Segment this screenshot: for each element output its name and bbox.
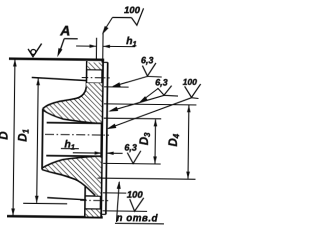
- hub left face: [41, 109, 44, 170]
- h1 mid right arrow: [107, 152, 123, 154]
- 6.3 #2 leader B (to D4 ext): [140, 88, 158, 102]
- svg-text:n отв.d: n отв.d: [116, 213, 158, 225]
- D4 dimension line: [187, 105, 190, 178]
- D3 bottom extension: [103, 162, 160, 165]
- view A arrow: [64, 38, 77, 40]
- D1 dimension line: [37, 79, 39, 203]
- hatched rim block bottom: [86, 210, 101, 217]
- 6.3 #2 tail: [164, 94, 178, 97]
- hatched rim block top: [87, 62, 102, 69]
- rim inner line bottom: [47, 198, 86, 200]
- lower bolt hole bottom edge: [85, 208, 101, 210]
- svg-text:100: 100: [124, 5, 141, 16]
- h1 mid label shelf: [61, 148, 79, 150]
- h1 top left extension: [95, 38, 97, 59]
- web lower wing hatched area: [42, 156, 101, 196]
- web lower wing upper edge: [42, 156, 95, 169]
- roughness 100 #3 check (on bottom ext): [130, 198, 144, 212]
- 100 #2 tail: [191, 97, 198, 100]
- svg-text:D: D: [0, 131, 11, 139]
- 6.3#1 extension line (hole): [104, 86, 128, 88]
- svg-text:D3: D3: [139, 132, 152, 145]
- 100 #2 leader (to V2 lower): [108, 97, 191, 130]
- n otv d leader: [116, 182, 119, 222]
- svg-text:D4: D4: [168, 133, 181, 146]
- svg-text:100: 100: [183, 77, 198, 87]
- svg-text:h1: h1: [126, 35, 137, 48]
- n otv d underline: [115, 222, 164, 225]
- web lower wing lower edge: [42, 170, 96, 196]
- rim inner line top (D1 extension): [32, 77, 88, 80]
- lower hole axis dash-dot: [80, 199, 108, 201]
- right face V1: [101, 60, 103, 218]
- bore bottom line: [46, 155, 101, 158]
- top surface line: [9, 59, 104, 60]
- D1 bottom extension line: [23, 202, 67, 205]
- upper bolt hole bottom edge: [87, 82, 103, 84]
- D4 top extension: [104, 104, 196, 105]
- svg-text:6,3: 6,3: [141, 55, 154, 65]
- roughness 100 #1 top: bar, check, leader: [112, 16, 131, 18]
- web upper wing hatched area: [43, 83, 102, 124]
- svg-text:A: A: [59, 22, 70, 38]
- roughness 6.3 #3 check (on D3 bottom ext): [127, 151, 141, 164]
- D3 top extension: [104, 117, 161, 120]
- D3 dimension line: [154, 119, 157, 163]
- flange ring top edge: [103, 61, 108, 63]
- svg-text:D1: D1: [17, 128, 30, 141]
- web upper wing lower edge: [43, 110, 96, 123]
- svg-text:h1: h1: [64, 138, 75, 151]
- 100#3 extension line (bottom): [103, 210, 147, 213]
- svg-text:6,3: 6,3: [124, 143, 137, 153]
- 6.3 #2 leader C (to V2): [110, 95, 164, 112]
- roughness 6.3 #2 check: [158, 85, 172, 95]
- roughness symbol on top surface (check with circle): [28, 43, 42, 56]
- svg-text:100: 100: [127, 190, 144, 201]
- upper hole axis dash-dot: [82, 77, 110, 79]
- bore top line: [47, 122, 102, 125]
- 6.3 #1 tail: [147, 75, 161, 78]
- D dimension line: [13, 60, 15, 216]
- roughness 6.3 #1 check: [142, 63, 156, 76]
- flange left face upper: [85, 61, 87, 87]
- D4 bottom extension: [97, 178, 195, 179]
- bore axis dash-dot: [45, 133, 109, 136]
- flange left face lower: [84, 187, 86, 216]
- lower bolt hole top edge: [85, 195, 101, 197]
- h1 top dimension arrows: [76, 45, 96, 47]
- flange ring V2: [106, 62, 108, 214]
- h1 mid left arrow: [73, 152, 101, 154]
- bottom surface line: [7, 216, 103, 217]
- upper bolt hole top edge: [87, 69, 103, 71]
- 6.3 #1 leader: [113, 76, 147, 87]
- svg-text:6,3: 6,3: [155, 77, 168, 87]
- h1 top right extension: [102, 32, 104, 59]
- roughness 100 #2 check: [184, 84, 200, 98]
- bottom hole extension line: [103, 192, 126, 194]
- flange ring bottom edge: [101, 213, 106, 215]
- web upper wing upper edge: [43, 86, 86, 109]
